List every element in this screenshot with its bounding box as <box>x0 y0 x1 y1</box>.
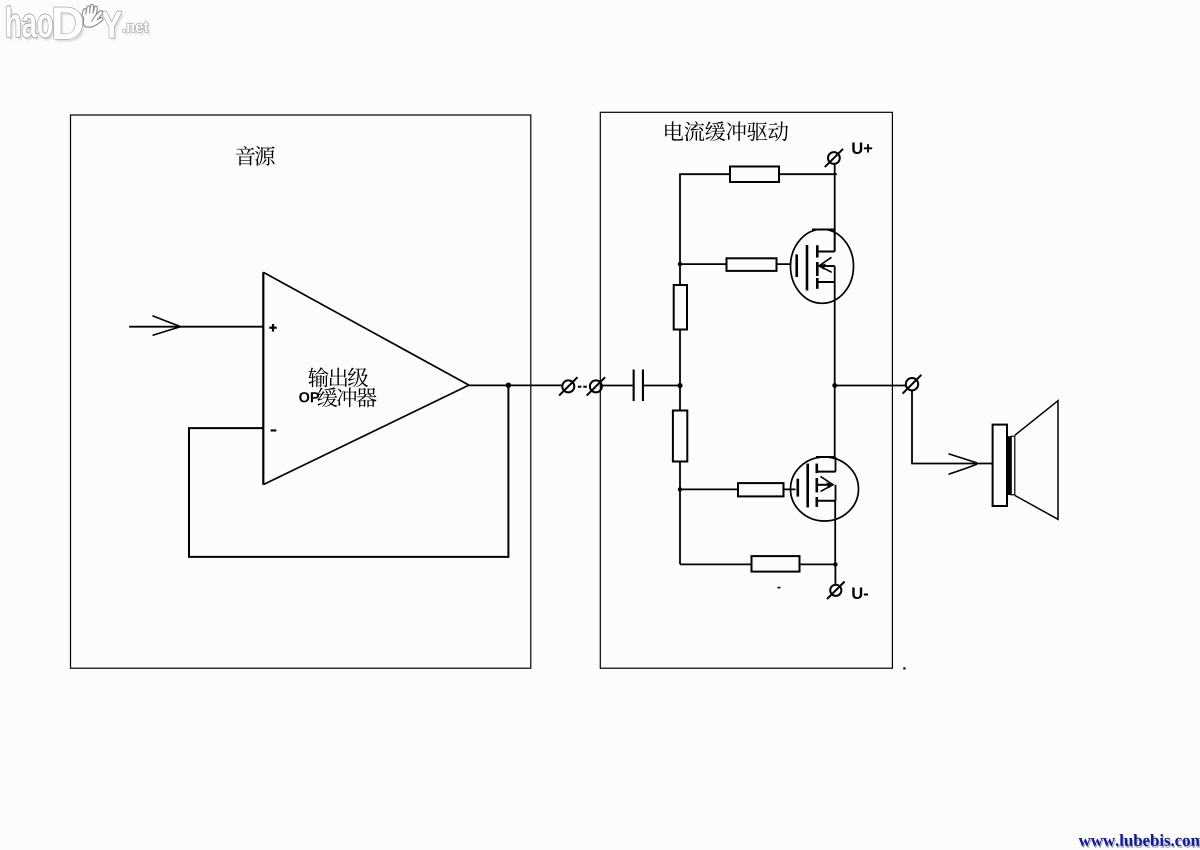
node: op-amp output junction <box>506 383 511 388</box>
wire: to U- terminal <box>834 564 836 584</box>
box: current buffer driver <box>600 112 892 668</box>
op-amp U1 <box>263 272 469 484</box>
stray dot right of box <box>903 667 905 669</box>
resistor R4 (vertical) <box>673 411 687 462</box>
wire: op-amp output <box>469 384 562 386</box>
label 电流缓冲驱动 <box>665 121 788 141</box>
wire: bottom rail <box>680 563 836 565</box>
logo haoDIY.net <box>7 5 151 42</box>
wire: lower gate row <box>680 488 796 490</box>
transistor Q2 (lower PMOS) <box>791 457 859 521</box>
wire: output to J3 <box>835 385 906 387</box>
resistor R3 (vertical) <box>674 285 687 330</box>
wire: input signal <box>129 326 263 328</box>
wire: node A rail to Q2 drain <box>834 386 836 458</box>
wire: upper gate row <box>680 263 791 265</box>
output arrow <box>949 454 978 474</box>
wire: J3 down and right to speaker <box>912 391 992 464</box>
label U- <box>852 587 868 599</box>
connector U+ terminal <box>825 149 843 167</box>
wire: left rail <box>679 174 681 564</box>
op-amp U1 minus input label <box>271 429 277 431</box>
input arrow <box>153 316 181 336</box>
connector J3 (output) <box>903 375 922 394</box>
node: upper gate junction <box>678 262 682 266</box>
op-amp label 输出级 <box>308 367 368 387</box>
node: bottom junction <box>833 562 837 566</box>
connector J1 <box>559 377 577 395</box>
label 音源 <box>236 146 275 166</box>
transistor Q1 (upper NMOS) <box>791 229 854 303</box>
wire: Q2 source to bottom junction <box>834 501 836 565</box>
wire: top rail <box>679 173 837 175</box>
label U+ <box>852 142 872 154</box>
stray mark near R6 <box>777 587 780 589</box>
node: lower gate junction <box>678 487 682 491</box>
op-amp label OP <box>299 392 319 402</box>
resistor R6 <box>752 556 800 572</box>
node A: driver input node <box>677 383 682 388</box>
speaker LS1 <box>993 401 1058 520</box>
capacitor C1 <box>633 370 644 402</box>
watermark www.lubebis.com <box>1079 834 1200 848</box>
wire: J2 to capacitor <box>602 385 633 387</box>
op-amp U1 plus input label <box>269 324 276 332</box>
connector J2 <box>587 377 605 395</box>
box: audio source stage <box>71 115 531 668</box>
resistor R5 <box>738 483 784 496</box>
connector U- terminal <box>827 582 845 600</box>
wire: U+ drop <box>834 164 836 252</box>
wire: capacitor to node A <box>644 385 680 387</box>
dashed link J1-J2 <box>578 386 587 388</box>
op-amp label 缓冲器 <box>317 387 376 407</box>
wire: feedback loop <box>189 385 508 557</box>
wire: Q1 source to node A <box>834 282 836 386</box>
resistor R2 <box>727 258 777 271</box>
resistor R1 <box>730 167 779 183</box>
node: output junction <box>832 383 837 388</box>
